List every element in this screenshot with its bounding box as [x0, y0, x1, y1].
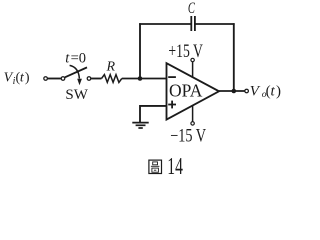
input terminal: [44, 77, 48, 81]
wire non-inverting input to ground: [140, 106, 167, 122]
svg-text:): ): [25, 70, 30, 85]
switch SW pivot contact: [61, 77, 65, 81]
wire junction up to feedback: [139, 23, 141, 78]
capacitor C: [191, 16, 195, 31]
wire resistor to op-amp inverting input: [122, 78, 167, 80]
label Vi(t): [4, 70, 30, 87]
svg-text:): ): [276, 84, 281, 100]
op-amp positive supply pin: [192, 62, 194, 78]
wire top feedback right segment: [195, 23, 235, 25]
wire feedback down to output node: [233, 23, 235, 91]
svg-text:SW: SW: [65, 87, 88, 103]
label Vo(t): [250, 84, 281, 100]
ground: [132, 123, 148, 128]
op-amp inverting input marker (minus): [168, 76, 176, 78]
wire op-amp output to terminal: [219, 90, 245, 92]
wire switch to resistor: [91, 78, 102, 80]
output terminal: [245, 89, 249, 93]
svg-text:14: 14: [167, 153, 183, 180]
svg-text:OPA: OPA: [169, 81, 203, 101]
op-amp non-inverting input marker (plus): [168, 101, 176, 109]
node junction at output: [232, 89, 237, 94]
resistor R: [102, 75, 122, 83]
caption character 圖 (figure): [149, 160, 162, 173]
switch SW right contact: [87, 77, 91, 81]
op-amp U1 triangle: [167, 63, 220, 119]
switch SW blade: [65, 67, 87, 77]
switch actuation arrow (closes at t=0): [70, 65, 80, 78]
svg-text:=0: =0: [71, 51, 86, 67]
op-amp negative supply pin: [192, 106, 194, 122]
wire input terminal to switch pivot: [48, 78, 61, 80]
svg-text:R: R: [106, 60, 116, 75]
svg-text:+15 V: +15 V: [168, 42, 203, 62]
svg-text:−15 V: −15 V: [170, 126, 206, 146]
svg-text:C: C: [188, 0, 195, 17]
label t=0: [65, 51, 86, 67]
wire top feedback left segment: [139, 23, 191, 25]
node junction at inverting input: [138, 76, 143, 81]
